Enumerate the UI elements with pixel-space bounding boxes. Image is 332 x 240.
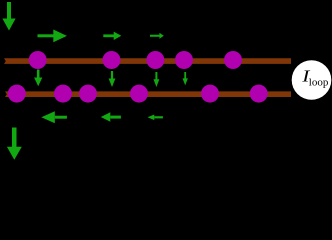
- arrow: electron drift right arrow 2 (top wire, medium): [103, 32, 121, 40]
- electron: top wire #4: [175, 51, 193, 69]
- node: current loop symbol (white circle): [292, 60, 332, 100]
- wire: bottom conductor: [5, 91, 291, 97]
- electron: top wire #3: [146, 51, 164, 69]
- arrow: down arrow below top electron #3: [154, 72, 160, 87]
- electron: top wire #2: [103, 51, 121, 69]
- arrow: electron drift left arrow 1 (bottom wire, large): [41, 111, 67, 123]
- electron: bottom wire #5: [201, 85, 219, 103]
- arrow: down arrow below top electron #1: [34, 70, 42, 87]
- arrow: electron drift left arrow 2 (bottom wire, medium): [101, 112, 121, 122]
- arrow: electron drift right arrow 3 (top wire, small): [150, 33, 164, 39]
- electron: bottom wire #1: [8, 85, 26, 103]
- arrow: electron drift right arrow 1 (top wire, large): [38, 30, 67, 43]
- arrow: conventional-current down arrow, top left: [2, 2, 15, 31]
- electron: bottom wire #6: [250, 85, 268, 103]
- electron: bottom wire #2: [54, 85, 72, 103]
- arrow: down arrow below top electron #4: [183, 72, 188, 85]
- svg-text:loop: loop: [309, 76, 329, 88]
- arrow: electron drift left arrow 3 (bottom wire, small): [148, 115, 163, 121]
- arrow: conventional-current down arrow, bottom left: [7, 128, 22, 160]
- arrow: down arrow below top electron #2: [109, 71, 116, 87]
- electron: bottom wire #3: [79, 85, 97, 103]
- electron: bottom wire #4: [130, 85, 148, 103]
- electron: top wire #1: [29, 51, 47, 69]
- wire: top conductor: [4, 58, 291, 64]
- electron: top wire #5: [224, 51, 242, 69]
